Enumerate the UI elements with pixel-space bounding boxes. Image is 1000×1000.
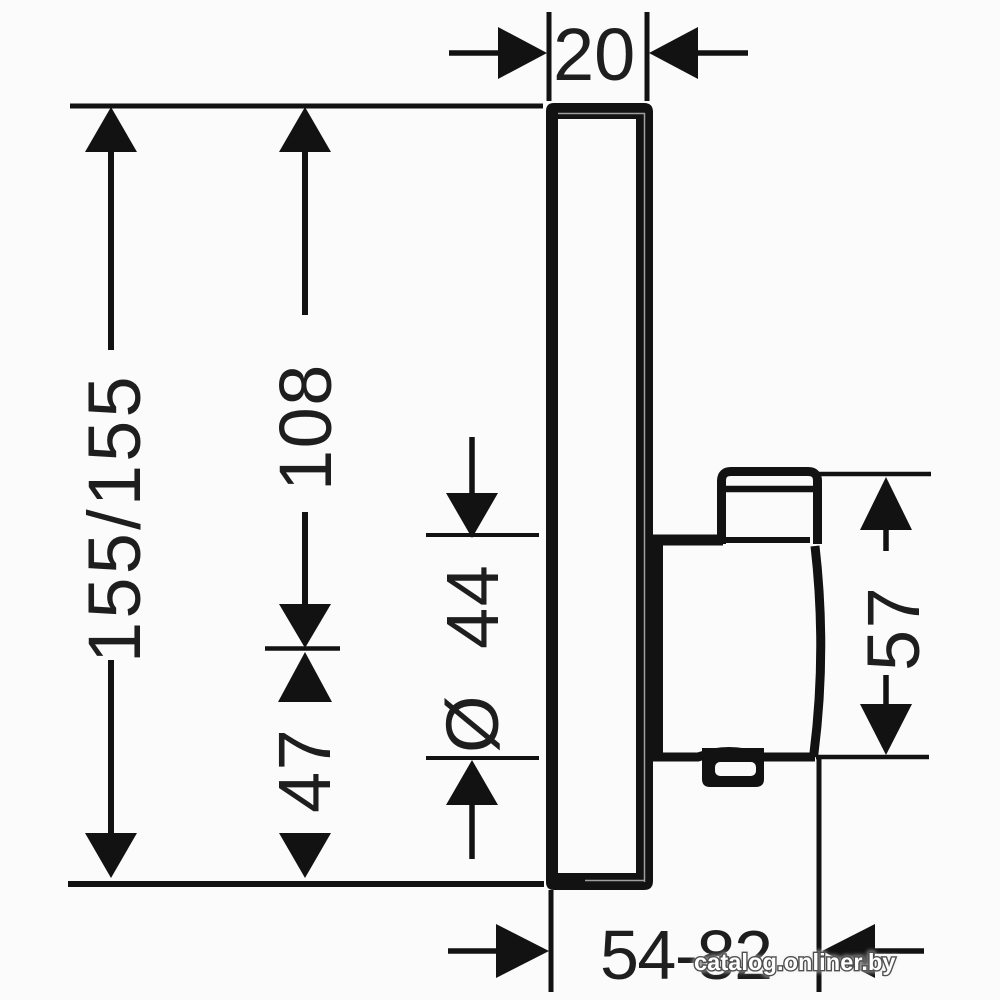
svg-text:catalog.onliner.by: catalog.onliner.by	[694, 949, 896, 975]
svg-text:57: 57	[852, 586, 935, 671]
svg-text:47: 47	[263, 728, 346, 813]
svg-text:155/155: 155/155	[73, 373, 156, 663]
svg-text:108: 108	[264, 363, 347, 491]
svg-text:20: 20	[553, 13, 635, 96]
svg-text:44: 44	[431, 564, 514, 649]
svg-text:Ø: Ø	[431, 694, 514, 753]
